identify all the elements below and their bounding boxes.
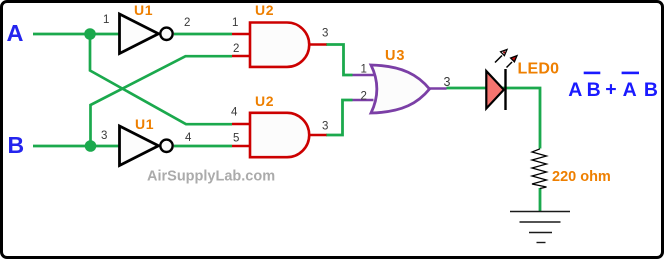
U3 pin 1 stub [353, 74, 374, 77]
wire U1a output to U2a pin1 [174, 33, 232, 36]
svg-text:3: 3 [444, 75, 451, 89]
svg-text:AirSupplyLab.com: AirSupplyLab.com [147, 169, 275, 185]
svg-text:A: A [7, 20, 24, 46]
LED0 cathode bar [504, 69, 506, 110]
U2b pin 5 stub [232, 145, 250, 148]
svg-text:4: 4 [185, 132, 192, 144]
AND gate U2 (top) body [250, 23, 309, 67]
svg-text:3: 3 [322, 121, 328, 133]
svg-text:2: 2 [361, 91, 367, 103]
U2a output stub pin 3 [309, 43, 327, 46]
svg-text:B: B [644, 79, 658, 101]
inverter U1 (bottom) bubble [160, 140, 172, 152]
svg-text:220 ohm: 220 ohm [552, 169, 611, 185]
U2b output stub pin 3 [309, 134, 327, 137]
wire U2a output to U3 pin1 [326, 45, 353, 76]
U2b pin 4 stub [232, 123, 250, 126]
svg-text:1: 1 [103, 14, 109, 26]
OR gate U3 body [371, 65, 430, 113]
svg-text:5: 5 [233, 133, 239, 145]
resistor R zigzag [532, 149, 547, 189]
overbar on first B [584, 72, 601, 75]
svg-text:U2: U2 [255, 2, 274, 18]
svg-text:3: 3 [101, 130, 107, 142]
svg-text:U1: U1 [135, 116, 154, 132]
svg-text:2: 2 [233, 43, 239, 55]
overbar on second A [622, 72, 639, 75]
AND gate U2 (bottom) body [250, 113, 309, 157]
U3 output stub [429, 87, 447, 90]
ground [510, 212, 570, 243]
svg-text:LED0: LED0 [518, 61, 560, 78]
svg-text:1: 1 [232, 17, 238, 29]
U2a pin 1 stub [232, 33, 250, 36]
svg-text:2: 2 [184, 17, 190, 29]
junction A [84, 28, 96, 40]
LED0 diode triangle [486, 71, 504, 109]
svg-text:B: B [8, 132, 25, 158]
wire A branch vertical+diagonal to U2b pin4 [90, 34, 232, 124]
LED emission arrow 2 [507, 56, 518, 68]
U2a pin 2 stub [232, 55, 250, 58]
svg-text:A: A [568, 79, 582, 101]
wire B lead to inverter U1b [33, 145, 119, 148]
wire A lead to inverter U1 [33, 33, 119, 36]
svg-text:A: A [623, 79, 637, 101]
svg-text:+: + [605, 78, 616, 100]
svg-text:4: 4 [231, 107, 238, 119]
U3 pin 2 stub [353, 99, 374, 102]
wire B branch vertical+diagonal to U2a pin2 [91, 56, 233, 146]
inverter U1 (bottom) triangle [120, 126, 159, 166]
wire U2b output to U3 pin2 [326, 100, 353, 135]
wire U3 output to LED and resistor [447, 88, 541, 149]
svg-text:B: B [587, 79, 601, 101]
op-amp/inverter U1 (top) triangle [120, 14, 159, 54]
svg-text:U2: U2 [255, 93, 274, 109]
wire resistor to ground [539, 188, 542, 212]
junction B [85, 140, 97, 152]
wire U1b output to U2b pin5 [174, 145, 232, 148]
LED emission arrow 1 [495, 50, 507, 63]
inverter U1 (top) bubble [160, 28, 172, 40]
boolean expression A·Bbar + Abar·B [568, 78, 658, 101]
svg-text:3: 3 [322, 28, 328, 40]
svg-text:1: 1 [361, 64, 367, 76]
svg-text:U3: U3 [385, 48, 405, 64]
svg-text:U1: U1 [134, 2, 153, 18]
